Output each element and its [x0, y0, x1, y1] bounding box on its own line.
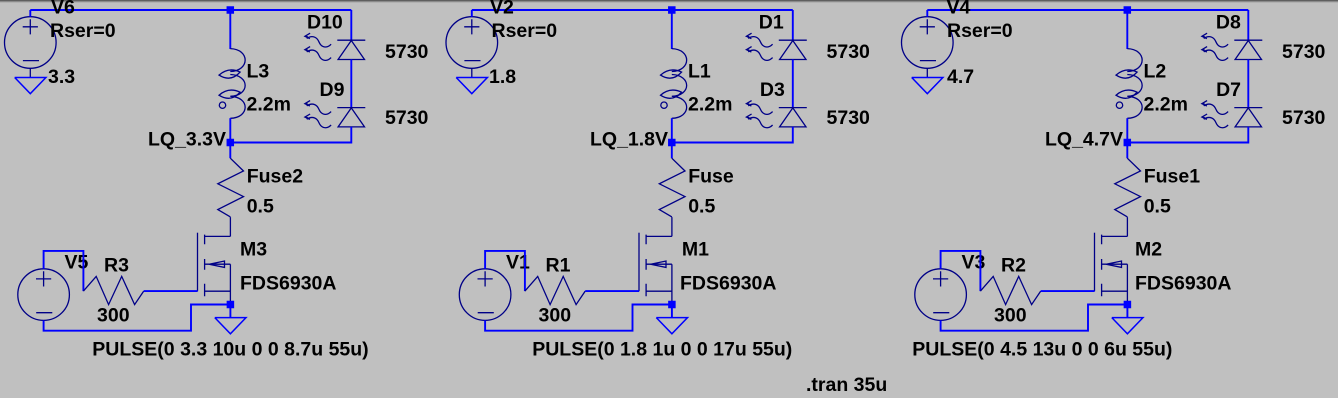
wire inductor to node LQ — [1126, 118, 1128, 142]
svg-text:FDS6930A: FDS6930A — [1135, 273, 1231, 295]
LED D8 — [1202, 33, 1262, 60]
svg-text:1.8: 1.8 — [489, 66, 516, 88]
wire V1 top to resistor R1 — [485, 251, 525, 291]
LED D3 — [746, 101, 806, 128]
LED D1 — [746, 33, 806, 60]
wire between LEDs — [792, 60, 794, 108]
wire rail to inductor — [1126, 10, 1128, 49]
wire between LEDs — [1247, 60, 1249, 108]
junction node LQ — [227, 139, 235, 147]
voltage source V6 — [5, 17, 57, 69]
voltage source V5 — [18, 269, 70, 321]
transistor M1 — [639, 217, 672, 304]
svg-text:V1: V1 — [506, 252, 530, 274]
wire R1 to gate — [585, 290, 639, 292]
resistor R2 — [980, 276, 1040, 304]
svg-text:R2: R2 — [1001, 255, 1026, 277]
wire V2 top to rail — [471, 10, 473, 17]
inductor L1 — [661, 49, 687, 119]
resistor Fuse — [659, 158, 685, 217]
svg-text:300: 300 — [97, 305, 130, 327]
svg-text:5730: 5730 — [385, 41, 429, 63]
svg-text:2.2m: 2.2m — [688, 94, 732, 116]
svg-text:Rser=0: Rser=0 — [50, 20, 116, 42]
svg-text:V2: V2 — [490, 0, 514, 19]
svg-text:M1: M1 — [682, 239, 709, 261]
svg-text:5730: 5730 — [827, 41, 871, 63]
wire V2 bottom lead — [471, 68, 473, 77]
wire R2 to gate — [1041, 290, 1095, 292]
transistor M3 — [198, 217, 231, 304]
svg-text:.tran 35u: .tran 35u — [806, 374, 887, 396]
svg-text:LQ_1.8V: LQ_1.8V — [590, 129, 668, 151]
wire node LQ to fuse — [229, 143, 231, 159]
wire source to ground — [229, 305, 231, 318]
svg-text:V3: V3 — [962, 252, 986, 274]
wire LED branch bottom — [230, 127, 351, 143]
svg-text:FDS6930A: FDS6930A — [240, 273, 336, 295]
junction top rail — [668, 6, 676, 14]
ground under V2 — [456, 78, 487, 94]
junction source node — [227, 301, 235, 309]
svg-text:0.5: 0.5 — [1144, 196, 1171, 218]
svg-text:D9: D9 — [320, 79, 345, 101]
svg-text:2.2m: 2.2m — [247, 94, 291, 116]
svg-text:300: 300 — [539, 305, 572, 327]
svg-text:D3: D3 — [760, 79, 785, 101]
svg-text:V4: V4 — [947, 0, 971, 19]
ground under V6 — [15, 78, 46, 94]
svg-text:L3: L3 — [247, 61, 270, 83]
svg-text:V5: V5 — [65, 252, 89, 274]
wire V4 bottom lead — [926, 68, 928, 77]
resistor R1 — [525, 276, 585, 304]
voltage source V3 — [915, 269, 967, 321]
svg-text:5730: 5730 — [827, 107, 871, 129]
transistor M2 — [1095, 217, 1128, 304]
svg-text:V6: V6 — [51, 0, 75, 19]
wire rail to inductor — [229, 10, 231, 49]
window top edge — [0, 0, 1338, 1]
svg-text:3.3: 3.3 — [48, 66, 75, 88]
resistor R3 — [83, 276, 143, 304]
wire inductor to node LQ — [229, 118, 231, 142]
svg-text:LQ_4.7V: LQ_4.7V — [1045, 129, 1123, 151]
wire node LQ to fuse — [671, 143, 673, 159]
wire between LEDs — [350, 60, 352, 108]
wire LED branch top — [1247, 10, 1249, 40]
wire V5 bottom return — [44, 305, 231, 331]
junction source node — [1124, 301, 1132, 309]
voltage source V2 — [446, 17, 498, 69]
resistor Fuse1 — [1115, 158, 1141, 217]
svg-text:PULSE(0 1.8 1u 0 0 17u 55u): PULSE(0 1.8 1u 0 0 17u 55u) — [532, 339, 792, 361]
wire V6 bottom lead — [29, 68, 31, 77]
svg-text:M2: M2 — [1135, 239, 1162, 261]
svg-text:2.2m: 2.2m — [1144, 94, 1188, 116]
LED D7 — [1202, 101, 1262, 128]
inductor L3 — [219, 49, 245, 119]
wire node LQ to LED branch — [672, 142, 793, 144]
wire top rail — [472, 9, 793, 11]
svg-text:300: 300 — [994, 305, 1027, 327]
wire V4 top to rail — [926, 10, 928, 17]
svg-text:LQ_3.3V: LQ_3.3V — [148, 129, 226, 151]
wire LED branch bottom — [1127, 127, 1248, 143]
svg-text:FDS6930A: FDS6930A — [680, 273, 776, 295]
svg-text:0.5: 0.5 — [688, 196, 715, 218]
ground under M2 — [1112, 318, 1143, 334]
svg-text:L1: L1 — [688, 61, 711, 83]
junction top rail — [227, 6, 235, 14]
svg-text:Rser=0: Rser=0 — [947, 20, 1013, 42]
voltage source V4 — [902, 17, 954, 69]
svg-text:Rser=0: Rser=0 — [492, 20, 558, 42]
svg-text:4.7: 4.7 — [947, 66, 974, 88]
svg-text:Fuse: Fuse — [688, 166, 734, 188]
wire node LQ to LED branch — [230, 142, 351, 144]
wire V6 top to rail — [29, 10, 31, 17]
svg-text:L2: L2 — [1144, 61, 1167, 83]
svg-text:Fuse2: Fuse2 — [247, 166, 304, 188]
wire R3 to gate — [144, 290, 198, 292]
svg-text:M3: M3 — [240, 239, 267, 261]
voltage source V1 — [459, 269, 511, 321]
LED D9 — [305, 101, 365, 128]
inductor L2 — [1116, 49, 1142, 119]
svg-text:D7: D7 — [1216, 79, 1241, 101]
svg-text:Fuse1: Fuse1 — [1144, 166, 1201, 188]
svg-text:PULSE(0 4.5 13u 0 0 6u 55u): PULSE(0 4.5 13u 0 0 6u 55u) — [912, 339, 1172, 361]
wire LED branch top — [792, 10, 794, 40]
svg-text:5730: 5730 — [385, 107, 429, 129]
svg-text:PULSE(0 3.3 10u 0 0 8.7u 55u): PULSE(0 3.3 10u 0 0 8.7u 55u) — [92, 339, 368, 361]
svg-text:D10: D10 — [307, 12, 343, 34]
wire top rail — [927, 9, 1248, 11]
svg-text:D8: D8 — [1216, 12, 1241, 34]
wire V1 bottom return — [485, 305, 672, 331]
svg-text:5730: 5730 — [1282, 107, 1326, 129]
wire node LQ to fuse — [1126, 143, 1128, 159]
wire rail to inductor — [671, 10, 673, 49]
wire V5 top to resistor R3 — [44, 251, 84, 291]
wire top rail — [30, 9, 351, 11]
wire source to ground — [671, 305, 673, 318]
wire V3 bottom return — [941, 305, 1128, 331]
junction top rail — [1124, 6, 1132, 14]
ground under V4 — [912, 78, 943, 94]
svg-text:D1: D1 — [759, 12, 784, 34]
wire V3 top to resistor R2 — [941, 251, 981, 291]
junction node LQ — [1124, 139, 1132, 147]
svg-text:0.5: 0.5 — [247, 196, 274, 218]
LED D10 — [305, 33, 365, 60]
wire inductor to node LQ — [671, 118, 673, 142]
ground under M3 — [215, 318, 246, 334]
svg-text:R3: R3 — [104, 255, 129, 277]
wire source to ground — [1126, 305, 1128, 318]
svg-text:5730: 5730 — [1282, 41, 1326, 63]
ground under M1 — [656, 318, 687, 334]
resistor Fuse2 — [218, 158, 244, 217]
svg-text:R1: R1 — [546, 255, 571, 277]
wire LED branch bottom — [672, 127, 793, 143]
junction node LQ — [668, 139, 676, 147]
junction source node — [668, 301, 676, 309]
wire node LQ to LED branch — [1127, 142, 1248, 144]
wire LED branch top — [350, 10, 352, 40]
